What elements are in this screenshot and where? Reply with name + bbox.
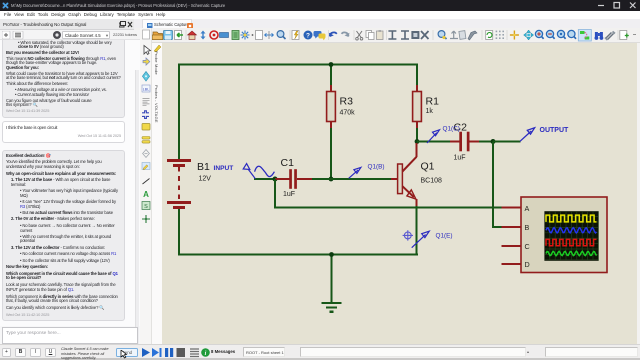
- node collector junction: [415, 139, 420, 144]
- wire R1 top lead: [416, 64, 418, 86]
- svg-text:470k: 470k: [340, 110, 356, 117]
- svg-text:C: C: [525, 242, 530, 251]
- capacitor C1: [275, 169, 313, 189]
- svg-text:A: A: [525, 204, 530, 213]
- node R3 top junction: [329, 62, 334, 67]
- wire emitter down: [416, 206, 418, 256]
- pin D: [502, 263, 522, 265]
- window title bar: [0, 0, 640, 11]
- wire input to scope A: [274, 179, 276, 209]
- svg-text:D: D: [525, 260, 530, 269]
- svg-text:S: S: [144, 204, 148, 210]
- wire ground branch: [331, 255, 333, 304]
- pin A: [502, 207, 522, 209]
- svg-text:LBL: LBL: [143, 88, 149, 92]
- svg-text:OUTPUT: OUTPUT: [540, 127, 570, 134]
- svg-text:B: B: [525, 223, 530, 232]
- svg-text:Q1(B): Q1(B): [368, 163, 385, 170]
- node ground junction: [329, 252, 334, 257]
- chat panel: [0, 30, 140, 358]
- node input junction: [273, 177, 278, 182]
- svg-text:12V: 12V: [199, 176, 212, 183]
- probe Q1(B): [349, 167, 361, 178]
- sim controls: [141, 347, 241, 358]
- node output junction: [491, 139, 496, 144]
- waveform red channel C: [546, 239, 597, 245]
- svg-text:INPUT: INPUT: [214, 165, 234, 172]
- pin C: [502, 245, 522, 247]
- svg-text:Q1: Q1: [421, 161, 435, 173]
- wire generator stub: [254, 178, 276, 180]
- svg-text:Q1(C): Q1(C): [443, 125, 460, 132]
- svg-text:R1: R1: [426, 96, 440, 108]
- wire C2 to output node: [479, 141, 494, 143]
- waveform blue channel B: [546, 228, 597, 233]
- svg-text:1k: 1k: [426, 108, 434, 115]
- battery B1: [167, 161, 191, 208]
- oscilloscope: [521, 197, 607, 273]
- ground: [322, 303, 342, 312]
- transistor Q1: [391, 143, 417, 207]
- svg-text:A: A: [143, 190, 149, 199]
- svg-text:R3: R3: [340, 96, 354, 108]
- svg-text:BC108: BC108: [421, 178, 443, 185]
- svg-text:1uF: 1uF: [283, 191, 295, 198]
- wire R1 bottom lead: [416, 128, 418, 143]
- generator sine symbol: [255, 166, 275, 176]
- svg-text:?: ?: [306, 32, 310, 39]
- wire bottom rail: [178, 254, 418, 256]
- probe Q1(E) cursor: [403, 230, 413, 240]
- pin B: [502, 226, 522, 228]
- generator INPUT flag: [243, 164, 255, 179]
- wire output to scope B: [492, 142, 494, 229]
- wire base rail: [312, 178, 398, 180]
- wire top rail: [178, 64, 418, 66]
- probe OUTPUT arrow: [520, 128, 535, 142]
- svg-text:B1: B1: [197, 161, 210, 173]
- waveform yellow channel A: [546, 215, 597, 222]
- resistor R1: [413, 85, 422, 129]
- probe Q1(C): [427, 130, 440, 143]
- tab row: [0, 19, 640, 30]
- chat format buttons: [2, 348, 11, 357]
- schematic canvas: [162, 43, 637, 344]
- svg-text:Q1(E): Q1(E): [436, 232, 453, 239]
- chat input + bottom controls placeholder: [2, 327, 138, 344]
- left vertical toolbar: [140, 28, 152, 344]
- oscilloscope screen: [544, 211, 598, 261]
- svg-text:1uF: 1uF: [454, 155, 466, 162]
- probe Q1(E) arrow: [412, 231, 430, 248]
- menu bar: [0, 11, 640, 19]
- capacitor C2: [417, 132, 481, 152]
- wire battery top: [178, 64, 180, 161]
- main toolbar (icons drawn in svg): [135, 28, 640, 43]
- node base junction: [329, 177, 334, 182]
- resistor R3: [327, 85, 336, 129]
- wire battery bottom: [178, 209, 180, 256]
- wire R3 top lead: [330, 65, 332, 86]
- wire output stub: [493, 141, 521, 143]
- wire R3 bottom lead: [330, 128, 332, 180]
- waveform green channel D: [546, 251, 597, 255]
- svg-text:C1: C1: [281, 157, 295, 169]
